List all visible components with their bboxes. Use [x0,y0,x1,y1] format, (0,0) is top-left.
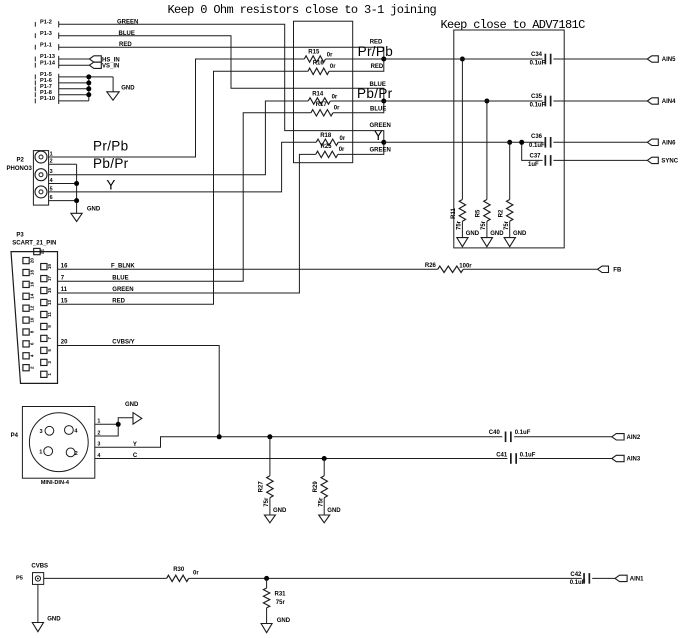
pin 7 label and net label BLUE [61,276,129,282]
resistor R5 (vertical) [476,200,491,222]
wire R29 to ground [323,498,325,515]
pin P1-1 [35,42,58,50]
svg-text:0.1uF: 0.1uF [520,453,536,459]
svg-text:75r: 75r [318,497,324,507]
junction R11 tap [460,57,465,62]
resistor R15 [304,50,325,63]
svg-text:GND: GND [513,231,527,237]
wire R5 tap from signal row [486,101,488,200]
wire R27 to ground [269,498,271,515]
svg-text:0r: 0r [340,136,346,142]
svg-text:BLUE: BLUE [112,276,128,282]
wire R5 to ground [486,221,488,237]
svg-text:GND: GND [273,508,287,514]
capacitor C42 with value 0.1uF [570,572,590,586]
pin P1-7 [35,84,58,92]
resistor R29 (vertical) [313,476,328,498]
wire SCART pin11 GREEN to resistor R25 [58,154,316,293]
svg-text:CVBS: CVBS [31,563,48,569]
svg-text:8: 8 [29,330,34,333]
svg-text:17: 17 [47,276,52,282]
svg-text:5: 5 [47,349,52,352]
pin P1-14 [35,60,58,68]
off-page connector VS_IN [89,62,119,70]
svg-text:GND: GND [125,402,139,408]
svg-text:F_BLNK: F_BLNK [111,263,135,269]
svg-text:18: 18 [29,270,34,276]
wire R2 tap from signal row [509,142,511,199]
resistor R25 value 0r [339,147,345,153]
ground symbol (P1 bus) with GND label [107,85,135,100]
svg-text:C34: C34 [531,52,543,58]
svg-text:C36: C36 [531,134,543,140]
connector P5 reference labels [16,563,48,581]
net label Pb/Pr (at 3-1 joining) [357,86,393,101]
net label C (S-video chroma) [133,453,138,459]
svg-text:Pb/Pr: Pb/Pr [357,86,393,101]
svg-text:C35: C35 [531,94,543,100]
svg-text:P1-2: P1-2 [40,20,52,26]
junction node BLUE / AIN4 [381,99,386,104]
svg-text:P2: P2 [17,157,25,163]
wire R31 to ground [266,608,268,624]
svg-text:R31: R31 [275,591,287,597]
capacitor C36 with value 0.1uF [529,134,551,149]
svg-text:R18: R18 [320,133,332,139]
net label Pr/Pb [93,138,129,153]
svg-text:14: 14 [29,293,34,299]
svg-text:Y: Y [106,178,115,193]
wire P5 to resistor R30 [44,577,167,579]
svg-text:3: 3 [40,429,43,435]
resistor R17 value 0r [334,106,340,112]
wire GREEN junction to C36 [384,141,543,143]
svg-text:0r: 0r [339,147,345,153]
wire P2 pin5 Y to resistor R18 [49,142,317,192]
wire C41 to AIN3 tag [519,458,611,460]
junction P1-7 bus [86,86,91,91]
wire R11 tap from signal row [461,59,463,200]
resistor R16 value 0r [330,64,336,70]
pin P2-4 number label [50,178,53,184]
resistor R29 value 75r [318,497,324,507]
svg-text:0r: 0r [334,106,340,112]
wire C40 to AIN2 tag [514,436,612,438]
resistor R26 with value 100r [425,263,472,272]
resistor R18 value 0r [340,136,346,142]
svg-text:15: 15 [61,298,68,304]
resistor R5 value 75r [481,220,487,230]
wire BLUE junction to C35 [384,100,543,102]
off-page connector AIN6 [647,139,676,146]
svg-text:SCART_21_PIN: SCART_21_PIN [12,240,56,246]
connector P5 CVBS jack [33,573,44,585]
resistor R27 (vertical) [259,476,274,498]
wire R27 tap to resistor [269,437,271,476]
pin P1-3 [35,31,58,39]
svg-text:R27: R27 [259,481,265,493]
svg-text:GND: GND [490,231,504,237]
svg-text:20: 20 [29,258,34,264]
ground symbol (P2) with GND label [71,207,101,222]
svg-text:RED: RED [371,64,384,70]
svg-text:R26: R26 [425,263,437,269]
svg-text:75r: 75r [276,600,286,606]
pin P1-8 [35,90,58,98]
pin 20 label and net label CVBS/Y [61,340,135,346]
net label GREEN (above junction) [370,123,391,129]
off-page connector AIN4 [647,98,676,105]
wire P1 ground bus (P1-5..P1-10) [59,77,113,101]
svg-text:12: 12 [29,305,34,311]
wire R18 output to GREEN junction [338,141,384,143]
wire R2 to ground [509,221,511,237]
svg-text:R25: R25 [321,144,333,150]
wire C37 to SYNC tag [553,159,647,161]
svg-text:AIN6: AIN6 [662,141,676,147]
off-page connector AIN1 [615,575,644,582]
svg-text:HS_IN: HS_IN [102,57,120,63]
ground symbol (R27) with GND label [264,508,287,523]
svg-text:BLUE: BLUE [370,82,386,88]
svg-text:Pr/Pb: Pr/Pb [358,44,394,59]
svg-text:Pr/Pb: Pr/Pb [93,138,129,153]
junction P1-5 bus [86,74,91,79]
capacitor C35 with value 0.1uF [530,94,551,108]
pin 16 label and net label F_BLNK [61,263,136,269]
svg-text:75r: 75r [504,220,510,230]
svg-text:19: 19 [47,264,52,270]
junction node RED / AIN5 [381,57,386,62]
wire R11 to ground [461,221,463,237]
wire P5 shield to ground [37,584,39,622]
ground symbol (R29) with GND label [319,508,342,523]
off-page connector HS_IN [89,56,119,64]
pin P2-2 number label [50,159,53,165]
wire P2 pin3 Pb/Pr to resistor R14 [49,101,309,175]
ground symbol (P4, right-pointing) with GND label [125,402,142,424]
connector P2 PHONO3 body [33,151,48,206]
wire P2 pin1 Pr/Pb to resistor R15 [49,59,305,157]
svg-text:AIN2: AIN2 [627,435,641,441]
title: Keep 0 Ohm resistors close to 3-1 joining [168,3,437,17]
wire R31 tap to resistor [266,578,268,588]
svg-text:75r: 75r [481,220,487,230]
svg-text:0r: 0r [327,53,333,59]
svg-text:0.1uF: 0.1uF [515,430,531,436]
svg-text:10: 10 [29,317,34,323]
net label Pb/Pr [93,156,129,171]
wire net RED: P1-1 to 3-1 joining [59,47,384,59]
wire C34 to AIN5 tag [553,58,647,60]
svg-text:16: 16 [29,281,34,287]
resistor R11 (vertical) [451,200,466,222]
resistor R31 with value 75r [263,588,286,608]
svg-text:GND: GND [466,231,480,237]
P4 internal pin numbers [39,428,78,457]
svg-text:2: 2 [29,366,34,369]
wire P4 pin1 to ground arrow [95,418,133,425]
junction P1-8 bus [86,92,91,97]
svg-text:P3: P3 [16,232,24,238]
svg-text:P5: P5 [16,575,23,581]
svg-text:GREEN: GREEN [112,287,133,293]
svg-text:AIN5: AIN5 [662,57,676,63]
net label Y [106,178,115,193]
svg-text:GREEN: GREEN [370,123,391,129]
connector P4 MINI-DIN-4 body [22,407,94,479]
svg-text:RED: RED [112,298,125,304]
svg-text:Y: Y [374,128,383,143]
wire RED junction to C34 [384,58,543,60]
svg-text:16: 16 [61,263,68,269]
svg-text:0.1uF: 0.1uF [530,102,546,108]
pin P1-10 [35,96,58,104]
off-page connector FB [598,266,622,273]
svg-text:R15: R15 [308,50,320,56]
svg-text:0.1uF: 0.1uF [530,61,546,67]
wire C42 to AIN1 tag [592,577,615,579]
pin numbers P3 left column (even) [29,258,34,369]
net label GREEN (P1-2 wire) [117,19,138,25]
svg-text:R14: R14 [312,92,324,98]
svg-text:R2: R2 [498,209,504,217]
pin P4-2 number label [97,430,100,436]
resistor R27 value 75r [264,497,270,507]
resistor R30 with value 0r [167,567,200,581]
svg-text:P1-8: P1-8 [40,90,52,96]
junction R31 tap [264,576,269,581]
wire SYNC branch from GREEN row to C37 [522,142,543,160]
svg-text:P1-1: P1-1 [40,42,52,48]
wire P1-13 to HS_IN tag [59,58,90,60]
wire R14 output to BLUE junction [330,100,384,102]
wire R17 output joining up to BLUE junction [333,101,384,113]
pin P4-4 number label [97,453,100,459]
ground symbol (R5) with GND label [481,231,504,247]
pin P1-2 [35,20,58,28]
capacitor C37 with value 1uF [528,153,551,167]
svg-text:1uF: 1uF [528,162,539,168]
connector P4 reference labels [11,433,70,486]
capacitor C34 with value 0.1uF [530,52,551,67]
svg-text:GND: GND [87,207,101,213]
junction R5 tap [484,99,489,104]
svg-text:AIN3: AIN3 [627,457,641,463]
wire R25 output joining up to GREEN junction [338,142,384,154]
svg-text:R11: R11 [451,208,457,219]
svg-text:3: 3 [47,361,52,364]
svg-text:0r: 0r [193,571,199,577]
resistor R25 [316,144,338,158]
wire R29 tap to resistor [323,459,325,476]
annotation box: keep close to ADV7181C region [454,30,564,248]
svg-text:0.1uF: 0.1uF [529,143,545,149]
net label BLUE (above junction) [370,82,386,88]
off-page connector SYNC [647,157,678,164]
net label RED (above junction) [370,40,383,46]
net label BLUE (R17 branch) [370,106,386,112]
ground symbol (R11) with GND label [457,231,480,247]
svg-text:GND: GND [277,618,291,624]
junction node GREEN / AIN6 [381,140,386,145]
capacitor C40 with value 0.1uF [489,430,531,442]
pin P2-3 number label [50,169,53,175]
resistor R16 [308,61,329,75]
junction P4 ground [116,422,121,427]
svg-text:GND: GND [47,616,61,622]
wire net GREEN: P1-2 to 3-1 joining [59,24,384,142]
wire SCART pin15 RED to resistor R16 [58,71,308,304]
svg-text:21: 21 [40,249,45,255]
net label Y (S-video luma) [133,442,137,448]
wire R30 to C42 [189,577,582,579]
svg-text:20: 20 [61,340,68,346]
ground symbol (R31) with GND label [261,618,291,633]
wire P4 pin2 joining pin1 [95,424,118,436]
net label RED (P1-1 wire) [119,42,132,48]
resistor R14 [308,92,330,105]
svg-text:2: 2 [75,451,78,457]
junction R29 tap [322,456,327,461]
svg-text:9: 9 [47,325,52,328]
pin P4-1 number label [97,419,100,425]
svg-text:C37: C37 [530,153,542,159]
junction P2 pin4 bus [74,181,79,186]
pin 11 label and net label GREEN [61,287,134,293]
resistor R14 value 0r [332,95,338,101]
svg-text:11: 11 [61,287,68,293]
pin 15 label and net label RED [61,298,126,304]
svg-text:15: 15 [47,288,52,294]
pin P1-6 [35,78,58,86]
svg-text:PHONO3: PHONO3 [7,166,33,172]
svg-text:P1-10: P1-10 [40,96,55,102]
resistor R2 value 75r [504,220,510,230]
svg-text:GREEN: GREEN [370,148,391,154]
off-page connector AIN5 [647,56,676,63]
pin P2-1 number label [50,151,53,157]
svg-text:SYNC: SYNC [661,159,678,165]
wire C36 to AIN6 tag [553,141,647,143]
pin numbers P3 right column (odd) [47,264,52,376]
svg-text:11: 11 [47,312,52,317]
wire P2 shield bus pins 2,4,6 to ground [49,164,77,213]
net label Y (at 3-1 joining) [374,128,383,143]
connector P2 reference labels [7,157,33,172]
junction P1-6 bus [86,80,91,85]
svg-text:13: 13 [47,300,52,306]
svg-text:GND: GND [327,508,341,514]
svg-text:R30: R30 [173,567,185,573]
svg-text:AIN1: AIN1 [630,577,644,583]
resistor R15 value 0r [327,53,333,59]
svg-text:R16: R16 [313,61,325,67]
svg-text:Keep 0 Ohm resistors close to: Keep 0 Ohm resistors close to 3-1 joinin… [168,3,437,17]
svg-text:75r: 75r [264,497,270,507]
title: Keep close to ADV7181C [441,18,586,32]
pin P1-5 [35,72,58,80]
net label BLUE (P1-3 wire) [119,31,135,37]
wire SCART pin20 CVBS/Y down to Y line [58,346,220,437]
svg-text:R5: R5 [476,209,482,217]
svg-text:VS_IN: VS_IN [102,64,119,70]
svg-text:C40: C40 [489,430,501,436]
svg-text:P1-13: P1-13 [40,54,55,60]
svg-text:4: 4 [29,354,34,357]
wire R16 output joining up to RED junction [329,59,384,71]
resistor R11 value 75r [457,220,463,230]
wire C35 to AIN4 tag [553,100,647,102]
net label GREEN (R25 branch) [370,148,391,154]
junction P2 pin6 bus [74,198,79,203]
wire P4 pin4 C to C41 [95,458,508,460]
svg-text:GND: GND [121,85,135,91]
resistor R18 [316,133,338,146]
pin P2-6 number label [50,195,53,201]
wire P4 pin3 Y to C40 [95,437,503,447]
svg-text:0.1uF: 0.1uF [570,580,586,586]
svg-text:C41: C41 [496,453,508,459]
off-page connector AIN2 [612,434,641,441]
off-page connector AIN3 [612,455,641,462]
svg-text:Pb/Pr: Pb/Pr [93,156,129,171]
svg-text:7: 7 [47,337,52,340]
svg-text:100r: 100r [459,264,472,270]
ground symbol (P5) with GND label [32,616,61,631]
svg-text:RED: RED [370,40,383,46]
resistor R2 (vertical) [498,200,513,222]
net label Pr/Pb (at 3-1 joining) [358,44,394,59]
wire P1-14 to VS_IN tag [59,64,90,66]
resistor R17 [311,102,333,116]
svg-text:1: 1 [47,373,52,376]
wire net BLUE: P1-3 to 3-1 joining [59,36,384,101]
pin P4-3 number label [97,442,100,448]
annotation box: 0-ohm resistors region [294,21,353,163]
svg-text:C42: C42 [570,572,582,578]
svg-text:R29: R29 [313,481,319,493]
svg-text:0r: 0r [330,64,336,70]
pin P2-5 number label [50,186,53,192]
svg-text:MINI-DIN-4: MINI-DIN-4 [41,480,70,486]
svg-text:P1-3: P1-3 [40,31,52,37]
junction R27 tap [267,434,272,439]
junction CVBS/Y joins Y line [217,434,222,439]
net label RED (R16 branch) [371,64,384,70]
svg-text:CVBS/Y: CVBS/Y [112,340,134,346]
svg-text:75r: 75r [457,220,463,230]
wire SCART pin7 BLUE to resistor R17 [58,113,311,281]
svg-text:1: 1 [39,450,42,456]
junction SYNC branch [519,140,524,145]
svg-text:0r: 0r [332,95,338,101]
connector P3 SCART_21_PIN body [11,248,58,383]
pin number P3-21 (top) [40,249,45,255]
svg-text:P1-14: P1-14 [40,60,56,66]
svg-text:AIN4: AIN4 [662,99,676,105]
wire R26 to FB tag [463,268,597,270]
ground symbol (R2) with GND label [504,231,527,247]
wire R15 output to RED junction [326,58,384,60]
svg-text:FB: FB [613,267,622,273]
wire SCART pin16 F_BLNK to resistor R26 [58,268,438,270]
junction R2 tap [507,140,512,145]
capacitor C41 with value 0.1uF [496,453,536,464]
svg-text:6: 6 [29,342,34,345]
connector P3 reference labels [12,232,56,246]
svg-text:R17: R17 [316,102,328,108]
